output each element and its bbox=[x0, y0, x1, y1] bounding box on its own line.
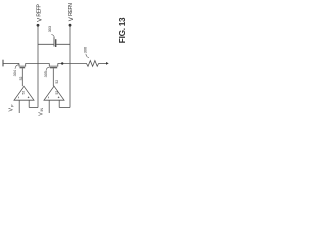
transistor M2 gate bar bbox=[50, 67, 57, 69]
svg-text:305: 305 bbox=[44, 71, 48, 77]
output arrowhead bbox=[106, 62, 109, 65]
resistor R 306 zigzag bbox=[87, 61, 99, 67]
svg-text:IN: IN bbox=[40, 108, 44, 112]
svg-text:52: 52 bbox=[55, 80, 59, 84]
svg-text:FIG. 13: FIG. 13 bbox=[117, 17, 127, 43]
wire VREFN rail vertical bbox=[69, 26, 71, 108]
capacitor C 303 right plate bbox=[55, 39, 57, 47]
wire bus right segment bbox=[58, 62, 87, 64]
wire U1 plus input stub bbox=[28, 100, 30, 107]
leader arc label 304 to M1 bbox=[15, 65, 19, 69]
svg-text:52: 52 bbox=[19, 77, 23, 81]
transistor M1 channel bbox=[19, 63, 26, 66]
wire bus left segment bbox=[3, 62, 19, 64]
wire left supply terminal bar bbox=[2, 60, 4, 67]
op-amp U1 input polarity marks bbox=[19, 97, 30, 99]
op-amp U2 input polarity marks bbox=[49, 97, 60, 99]
svg-text:306: 306 bbox=[84, 47, 88, 53]
wire bus middle segment bbox=[26, 62, 50, 64]
svg-text:303: 303 bbox=[48, 26, 52, 32]
node VREFP terminal dot bbox=[37, 24, 40, 27]
wire resistor to arrow bbox=[99, 62, 107, 64]
wire capacitor link bbox=[38, 43, 70, 45]
node VREFN terminal dot bbox=[69, 24, 72, 27]
svg-text:P: P bbox=[11, 104, 15, 107]
wire U2 feedback link bbox=[59, 107, 70, 109]
wire M2 gate lead bbox=[52, 68, 54, 86]
svg-text:52: 52 bbox=[55, 91, 59, 95]
op-amp U2 triangle bbox=[44, 86, 64, 100]
wire U1 minus input stub bbox=[18, 100, 20, 113]
leader arc label 305 to M2 bbox=[46, 67, 50, 71]
svg-text:52: 52 bbox=[22, 91, 26, 95]
wire M1 gate lead bbox=[21, 68, 23, 86]
leader arc label 303 to capacitor bbox=[51, 35, 54, 38]
leader arc label 306 to resistor bbox=[86, 54, 89, 58]
wire U2 plus input stub bbox=[58, 100, 60, 107]
svg-text:V: V bbox=[68, 16, 75, 21]
svg-text:REFN: REFN bbox=[68, 3, 74, 16]
wire VREFP rail vertical bbox=[37, 26, 39, 108]
op-amp U1 triangle bbox=[14, 86, 34, 100]
svg-text:V: V bbox=[36, 17, 43, 22]
transistor M1 gate bar bbox=[20, 67, 26, 69]
svg-text:REFP: REFP bbox=[37, 3, 43, 16]
capacitor C 303 left plate bbox=[53, 37, 55, 46]
transistor M2 channel bbox=[49, 63, 58, 66]
wire U2 minus input stub bbox=[48, 100, 50, 113]
svg-text:304: 304 bbox=[13, 70, 17, 76]
wire U1 feedback link bbox=[29, 107, 38, 109]
svg-text:V: V bbox=[8, 108, 14, 112]
node bus junction dot bbox=[61, 62, 63, 64]
